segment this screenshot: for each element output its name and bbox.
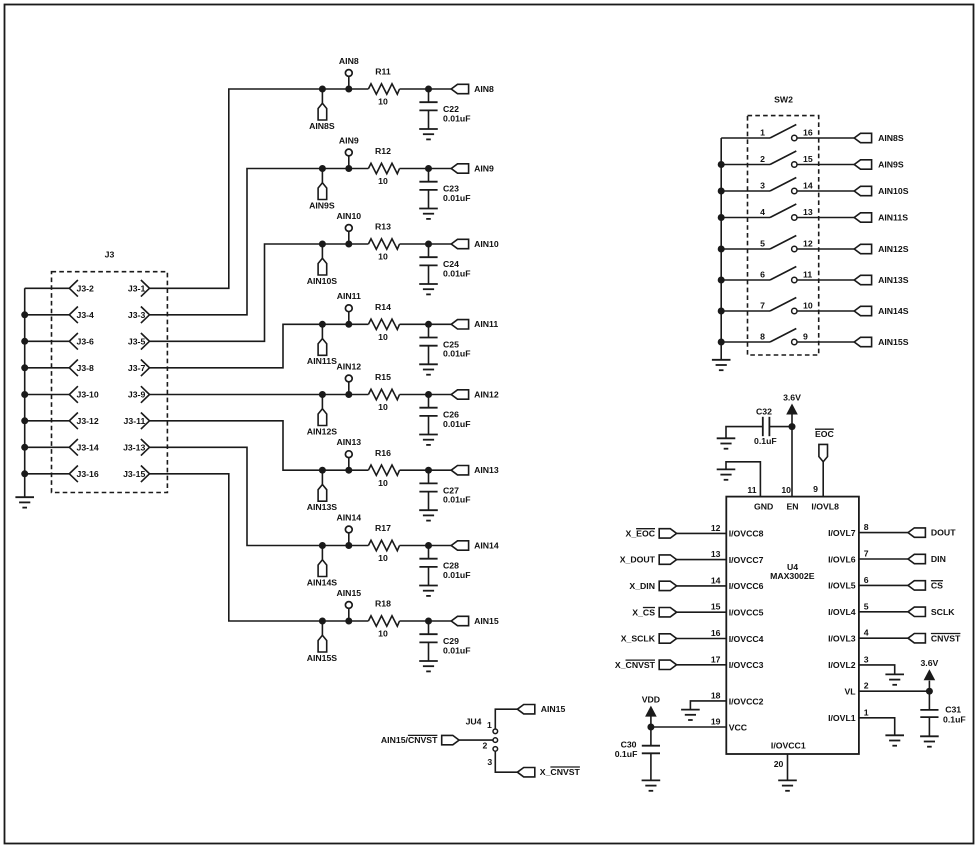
port AIN12S xyxy=(854,244,909,254)
junction AIN10S branch xyxy=(319,241,326,248)
svg-text:EN: EN xyxy=(786,502,798,512)
port AIN9S xyxy=(854,159,904,169)
test point AIN13 xyxy=(336,437,361,470)
wire SW2 pin 2 xyxy=(721,164,770,166)
SW2 pin 10 number xyxy=(803,300,813,310)
svg-text:16: 16 xyxy=(711,628,721,638)
svg-text:AIN15S: AIN15S xyxy=(878,337,909,347)
SW2 pin 5 number xyxy=(760,239,765,249)
SW2 pin 16 number xyxy=(803,127,813,137)
svg-text:C30: C30 xyxy=(621,740,637,750)
resistor R11 xyxy=(368,67,399,107)
pin 3 I/OVL2 xyxy=(828,654,869,670)
svg-text:I/OVCC2: I/OVCC2 xyxy=(729,696,764,706)
switch blade SW2-1 xyxy=(770,125,796,139)
svg-text:J3-11: J3-11 xyxy=(124,416,146,426)
capacitor C27 0.01uF xyxy=(419,470,470,510)
junction AIN11 test branch xyxy=(345,321,352,328)
svg-text:I/OVL3: I/OVL3 xyxy=(828,634,856,644)
test point AIN8 xyxy=(339,56,359,89)
svg-text:J3-15: J3-15 xyxy=(123,469,145,479)
ground SW2 bus xyxy=(712,360,731,370)
SW2 pin 1 number xyxy=(760,128,765,138)
wire SW2 pin 15 to AIN9S port xyxy=(797,164,854,166)
junction VCC / C30 xyxy=(647,724,654,731)
pin 4 I/OVL3 xyxy=(828,628,869,644)
test point AIN15S xyxy=(307,621,338,663)
wire port X_CS to pin 15 xyxy=(677,611,727,613)
wire pin 11 to ground xyxy=(726,462,760,497)
power 3.6V at EN xyxy=(783,392,801,414)
svg-text:J3-1: J3-1 xyxy=(128,283,146,293)
svg-text:15: 15 xyxy=(803,154,813,164)
junction SW2 pin 6 on ground bus xyxy=(718,277,725,284)
svg-text:13: 13 xyxy=(711,549,721,559)
svg-text:AIN15: AIN15 xyxy=(541,704,566,714)
pin 17 I/OVCC3 xyxy=(711,654,764,670)
wire SW2 ground bus xyxy=(720,138,722,360)
junction AIN12 test branch xyxy=(345,391,352,398)
svg-text:10: 10 xyxy=(378,478,388,488)
svg-text:AIN13: AIN13 xyxy=(474,465,499,475)
svg-text:J3-13: J3-13 xyxy=(123,442,145,452)
svg-text:I/OVL8: I/OVL8 xyxy=(811,502,839,512)
port DIN xyxy=(908,554,946,564)
svg-text:9: 9 xyxy=(813,484,818,494)
svg-text:J3: J3 xyxy=(105,250,115,260)
wire SW2 pin 9 to AIN15S port xyxy=(797,341,854,343)
svg-text:7: 7 xyxy=(864,549,869,559)
pin 18 I/OVCC2 xyxy=(711,691,764,707)
ground J3 bus xyxy=(15,497,34,507)
svg-text:R13: R13 xyxy=(375,222,391,232)
switch blade SW2-7 xyxy=(770,298,796,312)
svg-text:AIN9: AIN9 xyxy=(474,163,494,173)
capacitor C31 0.1uF xyxy=(920,691,965,736)
junction J3-8 on ground bus xyxy=(21,364,28,371)
switch contact SW2 pin 11 xyxy=(792,277,797,282)
svg-text:AIN8: AIN8 xyxy=(339,56,359,66)
wire SW2 pin 11 to AIN13S port xyxy=(797,279,854,281)
test point AIN9 xyxy=(339,135,359,168)
svg-text:AIN10S: AIN10S xyxy=(878,186,909,196)
wire J3-8 to ground bus xyxy=(25,367,70,369)
SW2 pin 6 number xyxy=(760,270,765,280)
svg-text:10: 10 xyxy=(378,252,388,262)
svg-text:JU4: JU4 xyxy=(466,717,482,727)
wire SW2 pin 7 xyxy=(721,310,770,312)
test point AIN14 xyxy=(336,512,361,545)
port AIN15/CNVST xyxy=(381,735,459,745)
port X_CNVST at JU4 xyxy=(517,767,580,777)
ground at pin 11 xyxy=(717,469,736,479)
test point AIN13S xyxy=(307,470,338,512)
pin J3-12 xyxy=(69,413,99,430)
port CS xyxy=(908,581,943,591)
junction C27 branch xyxy=(425,467,432,474)
port AIN14S xyxy=(854,306,909,316)
svg-text:J3-2: J3-2 xyxy=(77,283,95,293)
pin J3-1 xyxy=(128,280,150,297)
svg-text:C32: C32 xyxy=(756,406,772,416)
svg-text:J3-4: J3-4 xyxy=(77,310,95,320)
wire J3-5 to AIN10 filter node xyxy=(150,244,369,341)
port DOUT xyxy=(908,528,956,538)
svg-text:I/OVL1: I/OVL1 xyxy=(828,713,856,723)
port X_DIN xyxy=(629,581,676,591)
svg-text:18: 18 xyxy=(711,691,721,701)
wire J3-16 to ground bus xyxy=(25,473,70,475)
svg-text:X_CNVST: X_CNVST xyxy=(615,660,656,670)
junction C24 branch xyxy=(425,241,432,248)
pin 15 I/OVCC5 xyxy=(711,602,764,618)
switch contact SW2 pin 16 xyxy=(792,135,797,140)
svg-text:AIN11S: AIN11S xyxy=(307,356,337,366)
svg-text:J3-16: J3-16 xyxy=(77,469,99,479)
port AIN15 xyxy=(451,616,499,626)
svg-text:3.6V: 3.6V xyxy=(783,392,801,402)
svg-text:0.01uF: 0.01uF xyxy=(443,645,471,655)
svg-text:SCLK: SCLK xyxy=(931,607,955,617)
svg-text:R11: R11 xyxy=(375,67,391,77)
svg-text:3.6V: 3.6V xyxy=(920,658,938,668)
junction EN / C32 xyxy=(789,423,796,430)
svg-text:X_CNVST: X_CNVST xyxy=(540,767,581,777)
pin J3-5 xyxy=(128,333,150,350)
port X_SCLK xyxy=(621,634,677,644)
ground at pin 1 xyxy=(885,735,904,745)
wire pin 5 to port SCLK xyxy=(859,611,908,613)
svg-text:0.01uF: 0.01uF xyxy=(443,570,471,580)
svg-text:J3-5: J3-5 xyxy=(128,336,146,346)
test point AIN8S xyxy=(309,89,335,131)
port AIN12 xyxy=(451,389,499,399)
resistor R12 xyxy=(368,146,399,186)
svg-text:11: 11 xyxy=(747,485,756,495)
svg-text:CS: CS xyxy=(931,581,943,591)
op-amp U4 MAX3002E body xyxy=(726,497,859,754)
svg-text:20: 20 xyxy=(774,759,784,769)
svg-text:VCC: VCC xyxy=(729,722,748,732)
junction SW2 pin 3 on ground bus xyxy=(718,188,725,195)
svg-text:AIN14S: AIN14S xyxy=(878,306,909,316)
wire port X_CNVST to pin 17 xyxy=(677,664,727,666)
wire pin 6 to port CS xyxy=(859,584,908,586)
junction J3-14 on ground bus xyxy=(21,444,28,451)
pin J3-6 xyxy=(69,333,94,350)
wire J3-14 to ground bus xyxy=(25,446,70,448)
svg-text:AIN14: AIN14 xyxy=(336,512,361,522)
wire SW2 pin 3 xyxy=(721,190,770,192)
wire J3-6 to ground bus xyxy=(25,340,70,342)
svg-text:12: 12 xyxy=(711,523,721,533)
pin J3-9 xyxy=(128,386,150,403)
SW2 pin 3 number xyxy=(760,181,765,191)
switch contact SW2 pin 12 xyxy=(792,246,797,251)
wire R18 to AIN15 connector xyxy=(400,620,452,622)
ground below C22 xyxy=(419,129,438,139)
pin J3-15 xyxy=(123,466,149,483)
jumper JU4 xyxy=(466,717,482,727)
wire pin 10 EN to 3.6V xyxy=(791,414,793,497)
SW2 pin 13 number xyxy=(803,207,813,217)
test point EOC xyxy=(815,429,835,462)
capacitor C25 0.01uF xyxy=(419,324,470,364)
ground below C26 xyxy=(419,435,438,445)
pin 1 I/OVL1 xyxy=(828,707,869,723)
ground below C23 xyxy=(419,209,438,219)
svg-text:R17: R17 xyxy=(375,523,391,533)
JU4 pin 3 xyxy=(487,747,497,767)
pin J3-14 xyxy=(69,439,99,456)
SW2 pin 2 number xyxy=(760,154,765,164)
wire SW2 pin 14 to AIN10S port xyxy=(797,190,854,192)
pin J3-3 xyxy=(128,307,150,324)
svg-text:SW2: SW2 xyxy=(774,94,793,104)
svg-text:AIN10S: AIN10S xyxy=(307,276,338,286)
svg-text:C31: C31 xyxy=(945,705,961,715)
svg-text:GND: GND xyxy=(754,502,773,512)
svg-text:J3-10: J3-10 xyxy=(77,390,99,400)
switch blade SW2-8 xyxy=(770,329,796,343)
wire J3-12 to ground bus xyxy=(25,420,70,422)
pin 11 GND xyxy=(747,485,773,512)
svg-text:J3-7: J3-7 xyxy=(128,363,146,373)
svg-text:I/OVL5: I/OVL5 xyxy=(828,581,856,591)
junction AIN11S branch xyxy=(319,321,326,328)
capacitor C26 0.01uF xyxy=(419,395,470,435)
svg-text:AIN10: AIN10 xyxy=(474,239,499,249)
test point AIN9S xyxy=(309,169,335,211)
wire pin 3 to ground xyxy=(859,665,895,675)
svg-text:R16: R16 xyxy=(375,448,391,458)
svg-text:AIN10: AIN10 xyxy=(336,211,361,221)
pin J3-2 xyxy=(69,280,94,297)
svg-text:2: 2 xyxy=(482,740,487,750)
junction AIN12S branch xyxy=(319,391,326,398)
pin 9 I/OVL8 xyxy=(811,484,839,511)
test point AIN11 xyxy=(337,291,361,324)
switch blade SW2-5 xyxy=(770,236,796,250)
svg-text:10: 10 xyxy=(378,332,388,342)
wire SW2 pin 16 to AIN8S port xyxy=(797,137,854,139)
power VDD at VCC xyxy=(642,695,660,728)
junction AIN8S branch xyxy=(319,86,326,93)
svg-text:AIN12S: AIN12S xyxy=(878,244,909,254)
svg-text:DOUT: DOUT xyxy=(931,528,956,538)
svg-text:0.01uF: 0.01uF xyxy=(443,113,471,123)
wire J3-9 to AIN12 filter node xyxy=(150,394,369,396)
svg-text:I/OVL2: I/OVL2 xyxy=(828,660,856,670)
svg-text:19: 19 xyxy=(711,717,721,727)
svg-text:6: 6 xyxy=(760,270,765,280)
pin J3-8 xyxy=(69,360,94,377)
pin J3-16 xyxy=(69,466,99,483)
svg-text:10: 10 xyxy=(378,176,388,186)
svg-text:14: 14 xyxy=(711,575,721,585)
svg-text:AIN11S: AIN11S xyxy=(878,212,908,222)
svg-text:1: 1 xyxy=(487,720,492,730)
svg-text:10: 10 xyxy=(378,97,388,107)
wire pin 2 VL to 3.6V xyxy=(859,690,930,692)
switch blade SW2-4 xyxy=(770,204,796,218)
svg-text:VDD: VDD xyxy=(642,695,660,705)
wire port X_DOUT to pin 13 xyxy=(677,559,727,561)
svg-text:1: 1 xyxy=(864,707,869,717)
svg-text:R14: R14 xyxy=(375,302,391,312)
SW2 pin 4 number xyxy=(760,207,765,217)
junction C26 branch xyxy=(425,391,432,398)
port SCLK xyxy=(908,607,955,617)
junction J3-4 on ground bus xyxy=(21,311,28,318)
svg-text:AIN15: AIN15 xyxy=(336,588,361,598)
pin 19 VCC xyxy=(711,717,748,733)
junction AIN9S branch xyxy=(319,165,326,172)
svg-text:0.1uF: 0.1uF xyxy=(943,714,966,724)
svg-text:MAX3002E: MAX3002E xyxy=(770,571,815,581)
svg-text:7: 7 xyxy=(760,301,765,311)
svg-text:AIN12: AIN12 xyxy=(336,361,361,371)
switch blade SW2-2 xyxy=(770,151,796,165)
wire JU4 pin 1 to AIN15 port xyxy=(495,709,517,729)
port CNVST xyxy=(908,633,961,643)
wire SW2 pin 8 xyxy=(721,341,770,343)
wire pin 8 to port DOUT xyxy=(859,532,908,534)
svg-text:4: 4 xyxy=(760,207,765,217)
svg-text:14: 14 xyxy=(803,180,813,190)
SW2 pin 12 number xyxy=(803,238,813,248)
port AIN10 xyxy=(451,239,499,249)
SW2 pin 15 number xyxy=(803,154,813,164)
junction AIN13S branch xyxy=(319,467,326,474)
svg-text:17: 17 xyxy=(711,654,721,664)
pin 16 I/OVCC4 xyxy=(711,628,764,644)
test point AIN14S xyxy=(307,546,338,588)
ground at pin 3 xyxy=(885,674,904,684)
svg-text:10: 10 xyxy=(378,553,388,563)
svg-text:AIN14S: AIN14S xyxy=(307,577,338,587)
svg-text:DIN: DIN xyxy=(931,554,946,564)
ground at C31 xyxy=(920,736,939,746)
wire J3-4 to ground bus xyxy=(25,314,70,316)
wire pin 7 to port DIN xyxy=(859,558,908,560)
test point AIN11S xyxy=(307,324,337,366)
pin J3-11 xyxy=(124,413,150,430)
junction C25 branch xyxy=(425,321,432,328)
ground below C29 xyxy=(419,661,438,671)
svg-text:J3-14: J3-14 xyxy=(77,442,99,452)
port X_DOUT xyxy=(620,555,677,565)
svg-text:0.1uF: 0.1uF xyxy=(754,436,777,446)
junction AIN13 test branch xyxy=(345,467,352,474)
svg-text:J3-3: J3-3 xyxy=(128,310,146,320)
port AIN14 xyxy=(451,540,499,550)
port AIN11S xyxy=(854,212,908,222)
wire J3-15 to AIN15 filter node xyxy=(150,474,369,621)
junction C28 branch xyxy=(425,542,432,549)
svg-text:0.01uF: 0.01uF xyxy=(443,495,471,505)
svg-text:AIN13: AIN13 xyxy=(336,437,361,447)
wire J3-13 to AIN14 filter node xyxy=(150,447,369,545)
svg-text:0.1uF: 0.1uF xyxy=(615,749,638,759)
junction SW2 pin 5 on ground bus xyxy=(718,246,725,253)
wire pin 9 to EOC test point xyxy=(822,462,824,497)
capacitor C24 0.01uF xyxy=(419,244,470,284)
svg-text:2: 2 xyxy=(864,681,869,691)
svg-text:0.01uF: 0.01uF xyxy=(443,349,471,359)
svg-text:5: 5 xyxy=(760,239,765,249)
pin 14 I/OVCC6 xyxy=(711,575,764,591)
port X_CS xyxy=(632,607,676,617)
svg-text:I/OVL7: I/OVL7 xyxy=(828,528,856,538)
svg-text:I/OVL4: I/OVL4 xyxy=(828,607,856,617)
capacitor C30 0.1uF xyxy=(615,727,660,780)
svg-text:13: 13 xyxy=(803,207,813,217)
resistor R18 xyxy=(368,599,399,639)
svg-text:AIN15/CNVST: AIN15/CNVST xyxy=(381,735,438,745)
wire J3 ground bus xyxy=(24,288,26,497)
pin J3-7 xyxy=(128,360,150,377)
svg-text:I/OVCC4: I/OVCC4 xyxy=(729,634,764,644)
svg-text:AIN9S: AIN9S xyxy=(878,159,904,169)
SW2 pin 11 number xyxy=(803,269,812,279)
junction J3-16 on ground bus xyxy=(21,470,28,477)
svg-text:R12: R12 xyxy=(375,146,391,156)
svg-text:CNVST: CNVST xyxy=(931,633,961,643)
svg-text:AIN9S: AIN9S xyxy=(309,200,335,210)
pin J3-4 xyxy=(69,307,94,324)
ground below C24 xyxy=(419,284,438,294)
wire JU4 pin 2 to AIN15/CNVST port xyxy=(459,739,493,741)
port AIN15 at JU4 xyxy=(517,704,565,714)
port X_CNVST xyxy=(615,660,677,670)
junction VL / C31 xyxy=(926,688,933,695)
pin 8 I/OVL7 xyxy=(828,522,869,538)
svg-text:AIN13S: AIN13S xyxy=(878,275,909,285)
port AIN8 xyxy=(451,84,494,94)
resistor R15 xyxy=(368,372,399,412)
test point AIN10 xyxy=(336,211,361,244)
svg-text:2: 2 xyxy=(760,154,765,164)
port AIN10S xyxy=(854,186,909,196)
junction AIN10 test branch xyxy=(345,241,352,248)
wire J3-3 to AIN9 filter node xyxy=(150,169,369,315)
junction SW2 pin 8 on ground bus xyxy=(718,339,725,346)
test point AIN12 xyxy=(336,361,361,394)
wire R17 to AIN14 connector xyxy=(400,545,452,547)
pin 10 EN xyxy=(781,485,798,512)
wire R16 to AIN13 connector xyxy=(400,469,452,471)
JU4 pin 1 xyxy=(487,720,498,734)
svg-text:1: 1 xyxy=(760,128,765,138)
svg-text:AIN11: AIN11 xyxy=(337,291,361,301)
svg-text:AIN8: AIN8 xyxy=(474,84,494,94)
wire R15 to AIN12 connector xyxy=(400,394,452,396)
svg-text:R18: R18 xyxy=(375,599,391,609)
pin 5 I/OVL4 xyxy=(828,601,869,617)
svg-text:9: 9 xyxy=(803,331,808,341)
capacitor C23 0.01uF xyxy=(419,169,470,209)
pin J3-10 xyxy=(69,386,99,403)
svg-text:AIN15: AIN15 xyxy=(474,616,499,626)
switch contact SW2 pin 10 xyxy=(792,308,797,313)
switch contact SW2 pin 13 xyxy=(792,215,797,220)
wire pin 1 to ground xyxy=(859,718,895,736)
ground below C28 xyxy=(419,586,438,596)
junction AIN14 test branch xyxy=(345,542,352,549)
svg-text:J3-12: J3-12 xyxy=(77,416,99,426)
junction AIN14S branch xyxy=(319,542,326,549)
